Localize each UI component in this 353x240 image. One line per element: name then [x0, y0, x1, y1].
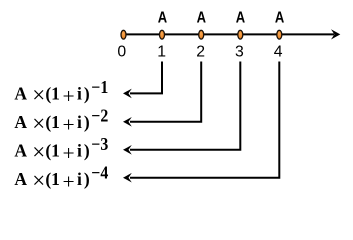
svg-text:−2: −2: [91, 105, 108, 125]
svg-text:+: +: [63, 112, 75, 136]
svg-text:0: 0: [117, 44, 126, 61]
elbow arrow from point 2 to formula 2: [123, 62, 201, 127]
elbow arrow from point 1 to formula 1: [123, 62, 162, 99]
svg-text:−4: −4: [91, 162, 108, 182]
timeline axis: [124, 33, 335, 35]
svg-text:×: ×: [32, 168, 45, 193]
axis arrowhead: [331, 29, 340, 39]
svg-text:2: 2: [196, 44, 205, 61]
svg-text:A: A: [158, 10, 168, 27]
node dot 2: [199, 30, 204, 39]
elbow arrow from point 4 to formula 4: [123, 62, 279, 183]
formula A x (1+i)^-2: [14, 105, 108, 136]
svg-text:−1: −1: [91, 77, 108, 97]
svg-text:i: i: [77, 140, 82, 160]
svg-text:): ): [84, 140, 90, 160]
svg-text:1: 1: [51, 169, 60, 189]
svg-text:1: 1: [51, 83, 60, 103]
svg-text:A: A: [197, 10, 207, 27]
svg-text:): ): [84, 169, 90, 189]
svg-text:+: +: [63, 169, 75, 193]
elbow arrow from point 3 to formula 3: [123, 62, 240, 155]
svg-text:1: 1: [51, 112, 60, 132]
svg-text:−3: −3: [91, 134, 108, 154]
svg-text:4: 4: [274, 44, 283, 61]
node dot 1: [160, 30, 165, 39]
svg-text:i: i: [77, 112, 82, 132]
svg-text:): ): [84, 112, 90, 132]
formula A x (1+i)^-1: [14, 77, 108, 108]
formula A x (1+i)^-4: [14, 162, 108, 193]
node dot 3: [238, 30, 243, 39]
formula A x (1+i)^-3: [14, 134, 108, 165]
node dot 0: [121, 30, 126, 39]
node dot 4: [277, 30, 282, 39]
svg-text:×: ×: [32, 140, 45, 165]
svg-text:3: 3: [235, 44, 244, 61]
svg-text:+: +: [63, 141, 75, 165]
svg-text:A: A: [14, 140, 27, 160]
svg-text:A: A: [14, 169, 27, 189]
svg-text:+: +: [63, 84, 75, 108]
svg-text:1: 1: [51, 140, 60, 160]
svg-text:A: A: [236, 10, 246, 27]
svg-text:×: ×: [32, 83, 45, 108]
svg-text:i: i: [77, 83, 82, 103]
svg-text:×: ×: [32, 111, 45, 136]
svg-text:): ): [84, 83, 90, 103]
svg-text:i: i: [77, 169, 82, 189]
svg-text:A: A: [14, 83, 27, 103]
svg-text:A: A: [275, 10, 285, 27]
svg-text:A: A: [14, 112, 27, 132]
svg-text:1: 1: [157, 44, 166, 61]
